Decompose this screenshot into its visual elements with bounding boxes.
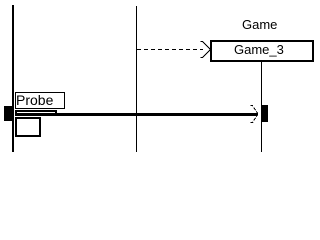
- small rectangle: [15, 117, 41, 137]
- lifeline Game_3: [261, 62, 262, 152]
- message label bracket: [15, 110, 57, 112]
- activation handle right: [262, 105, 268, 122]
- dashed shaft: [137, 49, 203, 51]
- message arrowhead right: [0, 0, 320, 159]
- lifeline left object: [12, 5, 14, 152]
- lifeline middle object: [136, 6, 137, 152]
- message arrow shaft (Probe): [15, 113, 257, 116]
- open arrowhead upper stroke: [201, 42, 211, 50]
- label box Probe: [15, 92, 65, 109]
- bracket left vertical: [15, 110, 17, 114]
- activation handle left: [4, 106, 13, 121]
- label Game: [242, 18, 277, 31]
- dashed message arrow to Game_3: [0, 0, 320, 159]
- open arrowhead lower stroke: [201, 50, 211, 58]
- object box Game_3: [210, 40, 314, 62]
- bracket right vertical: [55, 110, 57, 115]
- object box label Game_3: [234, 43, 284, 56]
